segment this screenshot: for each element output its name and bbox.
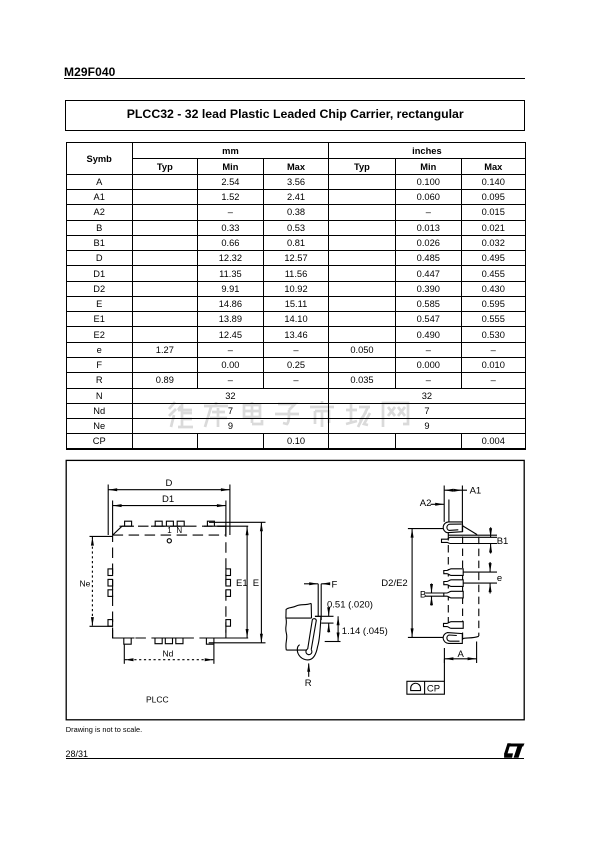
lower lead 4: [444, 622, 464, 629]
dim E1: line with arrows: [246, 526, 248, 638]
dim D: extension lines: [107, 485, 109, 536]
logo S diagonal: [504, 743, 511, 754]
logo T stem: [514, 747, 523, 758]
left pins: [108, 569, 113, 576]
dim Nd: arrowheads: [125, 658, 134, 661]
wm char 2: [204, 402, 228, 427]
dim Ne: dotted line: [91, 537, 93, 626]
dim e: arrows: [489, 562, 491, 572]
wm char 5: [310, 401, 334, 427]
dim A1: extension lines: [443, 486, 445, 522]
centre dashed line: [462, 525, 464, 641]
body torn outline top: [286, 603, 311, 618]
dim E: top extension: [209, 521, 266, 523]
body left torn edge: [286, 618, 287, 650]
J-lead inner U-turn: [306, 649, 312, 655]
dim D1: extension lines: [112, 501, 114, 536]
dim Nd: extension lines: [123, 645, 125, 664]
dim D1: right arrowhead: [217, 504, 226, 507]
solid segs beside top pins: [120, 525, 135, 527]
package body: left edge dashed: [112, 535, 114, 638]
footer rule: [66, 758, 525, 759]
package body: bottom edge dashed: [113, 637, 226, 639]
dim Ne: extension lines: [90, 535, 114, 537]
e tick lines: [463, 571, 497, 573]
dim A2: tick: [448, 500, 450, 523]
dim D1: dimension line: [113, 505, 226, 507]
dim 1.14: vertical with arrows: [337, 616, 339, 641]
footnote: [66, 725, 142, 734]
body bottom edge: [286, 649, 307, 651]
dim A: line with arrows: [444, 658, 476, 660]
corner solid top-right: [217, 526, 226, 534]
bottom pins: [124, 638, 131, 644]
R leader arrow: [308, 664, 310, 677]
pin1 index circle: [167, 539, 171, 543]
dim Ne: arrowheads: [91, 537, 94, 546]
CP flag box: [407, 681, 445, 694]
body top edge line: [286, 617, 312, 619]
page number: [66, 749, 89, 759]
tick 1.14 bottom: [325, 641, 341, 643]
dashed line left: [447, 533, 449, 628]
dashed line right (body edge): [478, 537, 480, 636]
dim D2/E2: extension lines: [408, 528, 444, 530]
package body: hidden lead line dashed: [113, 534, 226, 536]
dim 0.51: up arrow: [328, 623, 330, 632]
package body: top edge dashed: [122, 525, 226, 527]
top pins: [125, 521, 132, 526]
body top edge line: [448, 534, 497, 536]
bottom J-hook inner: [447, 635, 460, 641]
title box: [65, 100, 525, 131]
dim A1: line with arrows: [444, 489, 467, 491]
wm char 3: [244, 402, 262, 424]
dim E: bottom extension: [209, 642, 266, 644]
dim D: dimension line: [108, 489, 230, 491]
tick 0.51 lower: [321, 622, 333, 624]
solid segs beside bottom pins: [113, 637, 135, 639]
dim A2: leader arrow: [431, 503, 445, 505]
logo top bar: [508, 744, 525, 747]
middle lead 1: [444, 569, 463, 576]
J-lead slanted band: [308, 619, 317, 650]
header rule: [64, 78, 525, 79]
dim A: tick lines: [443, 648, 445, 663]
J-lead top cap: [315, 615, 321, 617]
CP flatness symbol: [411, 683, 421, 690]
corner solid bottom-left: [113, 630, 121, 638]
dim D: left arrowhead: [108, 488, 117, 491]
dim F: right arrow: [321, 583, 330, 585]
middle lead 2: [444, 580, 463, 587]
right pins: [226, 569, 231, 576]
dim Nd: dotted line: [125, 659, 214, 661]
logo S bottom bar: [504, 753, 513, 757]
wm char 4: [275, 404, 299, 424]
dim D2/E2: vertical with arrows: [411, 529, 413, 638]
dim F: extension lines: [317, 584, 319, 617]
dim B: arrows: [431, 584, 433, 594]
top hook chamfer to body: [462, 526, 477, 535]
connector to CP box: [443, 659, 445, 682]
flat lead 2: neck: [442, 537, 450, 543]
body right of torn top: [310, 603, 312, 618]
wm char 6: [346, 403, 370, 427]
top J-hook inner: [447, 524, 462, 530]
dim F: left arrow: [304, 583, 318, 585]
tick at seating plane: [315, 615, 334, 617]
J-lead outer curl: [297, 616, 321, 660]
chamfer corner pin1: [113, 526, 122, 535]
dim 0.51: down arrow: [328, 608, 330, 617]
dimensions table: [66, 142, 526, 450]
body bottom edge curve: [462, 636, 479, 638]
dim B1: arrows: [490, 527, 492, 537]
dim D1: left arrowhead: [113, 504, 122, 507]
dim E: line with arrows: [260, 522, 262, 643]
dim D: right arrowhead: [221, 488, 230, 491]
wm char 7: [383, 403, 408, 427]
flat lead 2: bar top edge: [450, 536, 497, 538]
package body: right edge dashed: [225, 526, 227, 638]
flat lead 2: bar bottom edge: [450, 543, 497, 545]
wm char 1: [169, 402, 176, 427]
middle lead 3: [444, 591, 463, 598]
top J-hook outer: [443, 522, 462, 533]
drawing frame box: [66, 460, 524, 719]
bottom J-hook outer: [443, 633, 462, 644]
header: part number: [64, 65, 115, 79]
corner solid bottom-right: [217, 630, 226, 638]
dim B: tick lines: [426, 592, 444, 594]
